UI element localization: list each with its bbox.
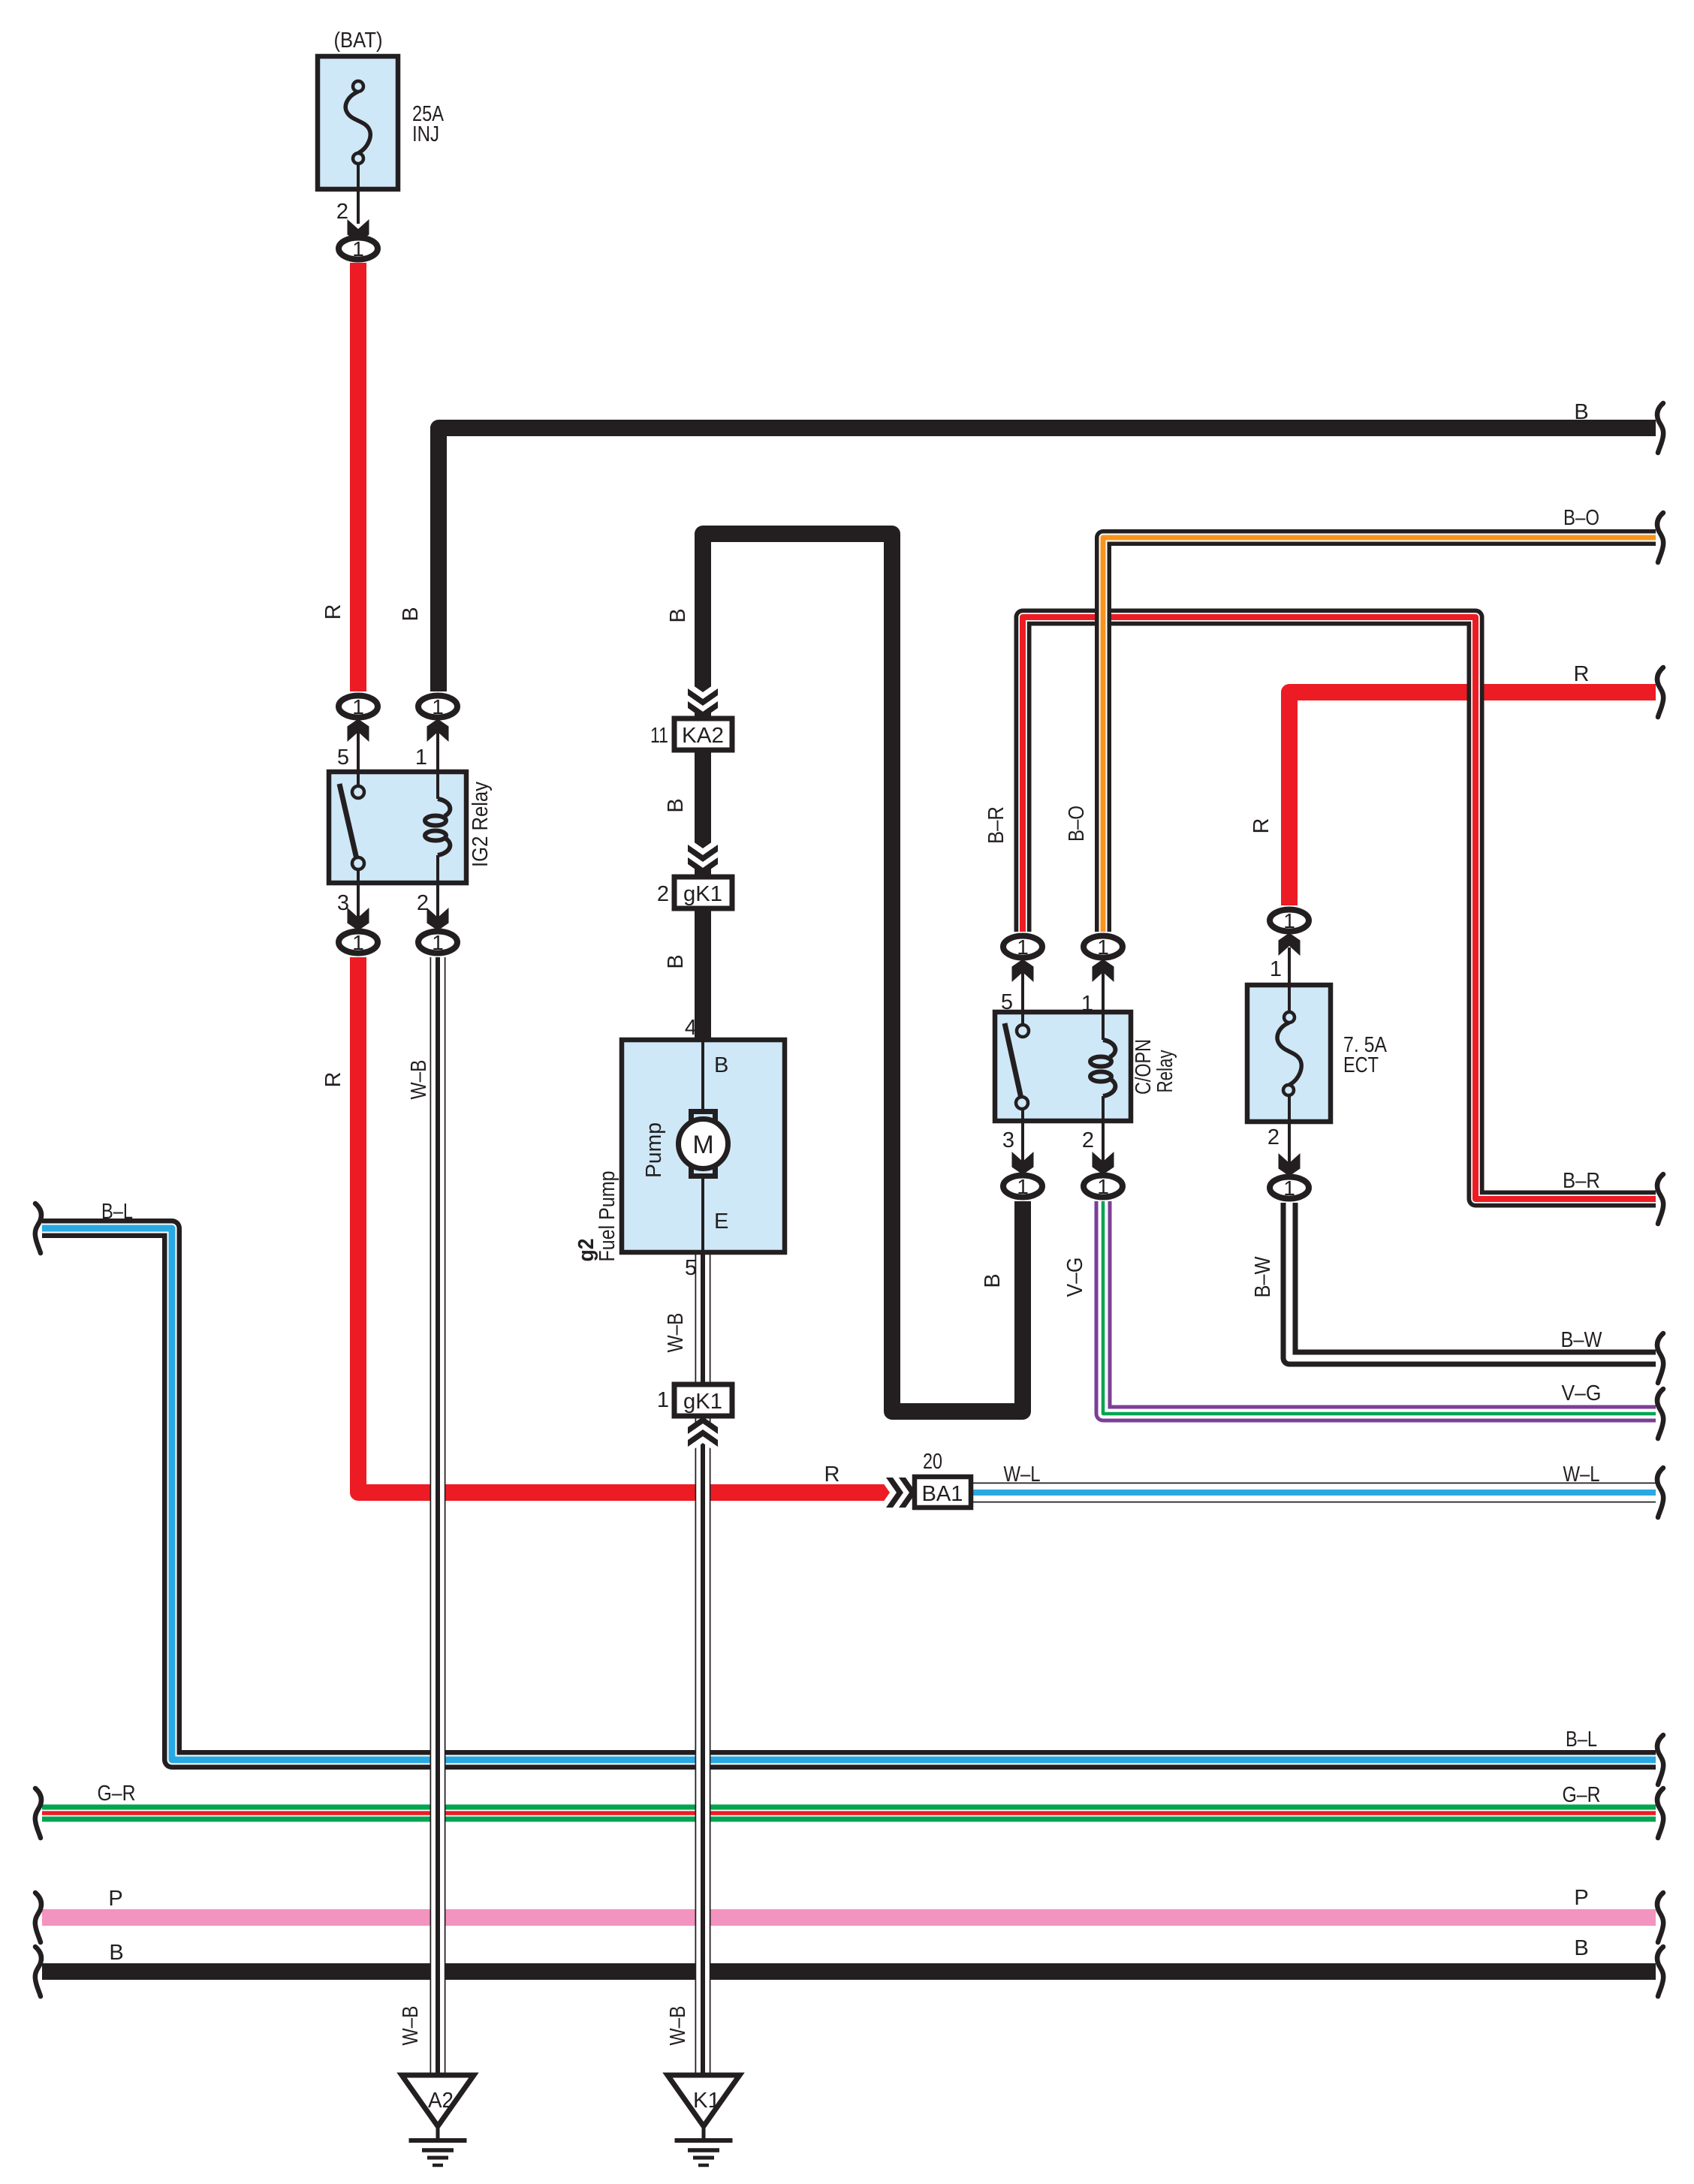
wire W-B (fuel pump pin 5 to gK1) xyxy=(695,1250,711,1387)
svg-text:B: B xyxy=(399,607,423,621)
svg-text:R: R xyxy=(1249,818,1274,834)
IG2 pin 2 arrow xyxy=(427,908,449,931)
svg-text:G–R: G–R xyxy=(1563,1783,1601,1807)
wire B-O (right edge to C/OPN relay pin 1) xyxy=(1103,538,1656,932)
svg-text:Fuel Pump: Fuel Pump xyxy=(595,1171,619,1262)
svg-text:11: 11 xyxy=(650,724,668,748)
brace P right xyxy=(1657,1893,1663,1942)
node 1 (above IG2 pin 1) xyxy=(418,695,457,718)
node 1 (below IG2 pin 2) xyxy=(418,931,457,954)
C/OPN pin 5 arrow xyxy=(1012,959,1034,983)
svg-text:M: M xyxy=(692,1131,713,1159)
brace G-R left xyxy=(35,1788,41,1838)
splice arrows into BA1 xyxy=(879,1478,897,1508)
splice arrows below gK1 xyxy=(688,1423,718,1441)
wire W-B (gK1 down to ground K1) xyxy=(695,1414,711,2075)
ECT pin 2 arrow xyxy=(1279,1153,1301,1176)
C/OPN relay coil xyxy=(1090,1040,1115,1096)
C/OPN pin 1 arrow xyxy=(1093,959,1114,983)
svg-text:B–O: B–O xyxy=(1065,806,1089,842)
svg-text:20: 20 xyxy=(923,1450,942,1474)
C/OPN relay pin 5 line xyxy=(1021,961,1024,1025)
svg-text:5: 5 xyxy=(1001,990,1013,1014)
svg-text:B: B xyxy=(664,798,688,812)
svg-text:2: 2 xyxy=(1082,1128,1094,1152)
svg-text:gK1: gK1 xyxy=(683,882,722,906)
svg-text:V–G: V–G xyxy=(1562,1381,1602,1405)
svg-text:B: B xyxy=(1574,400,1588,424)
fuse 7.5A ECT element xyxy=(1277,947,1301,1173)
brace B-O right xyxy=(1657,513,1663,562)
node 1 (below C/OPN pin 3) xyxy=(1003,1175,1042,1198)
ground A2 xyxy=(402,2075,474,2165)
wire V-G (C/OPN relay pin 2 down, right to edge) xyxy=(1103,1201,1656,1414)
svg-text:INJ: INJ xyxy=(412,122,439,146)
fuse 25A INJ element xyxy=(345,81,370,224)
svg-text:2: 2 xyxy=(657,882,669,906)
svg-text:1: 1 xyxy=(415,746,427,770)
IG2 relay pin 1 line xyxy=(436,721,439,799)
svg-text:R: R xyxy=(824,1463,840,1487)
svg-text:B–W: B–W xyxy=(1561,1328,1603,1352)
IG2 relay switch xyxy=(339,784,364,869)
brace B bottom right xyxy=(1657,1947,1663,1996)
splice arrows above gK1 xyxy=(688,838,718,855)
svg-text:1: 1 xyxy=(1270,957,1282,981)
svg-text:ECT: ECT xyxy=(1343,1053,1379,1077)
svg-text:B–O: B–O xyxy=(1563,506,1599,530)
svg-text:1: 1 xyxy=(1081,992,1093,1016)
C/OPN relay pin 1 line xyxy=(1102,961,1105,1040)
svg-text:W–B: W–B xyxy=(399,2006,423,2046)
node 1 (above ECT pin 1) xyxy=(1270,909,1309,932)
fuel pump internal wire B side xyxy=(701,1042,704,1112)
IG2 relay pin 5 line xyxy=(357,721,360,786)
brace W-L right xyxy=(1657,1468,1663,1517)
C/OPN pin 3 arrow xyxy=(1012,1152,1034,1175)
svg-text:K1: K1 xyxy=(693,2089,720,2113)
brace R right xyxy=(1657,667,1663,717)
svg-text:gK1: gK1 xyxy=(683,1390,722,1414)
ground K1 xyxy=(668,2075,740,2165)
fuse 7.5A ECT box xyxy=(1247,985,1331,1122)
svg-text:W–B: W–B xyxy=(666,2006,690,2046)
brace B bottom left xyxy=(35,1947,41,1996)
svg-text:5: 5 xyxy=(337,746,349,770)
wire B-L (left edge, down, right to edge) xyxy=(42,1228,1656,1760)
IG2 pin 5 arrow xyxy=(348,719,369,743)
svg-text:Relay: Relay xyxy=(1153,1050,1177,1092)
svg-text:R: R xyxy=(1574,662,1590,686)
wire G-R (full width) xyxy=(42,1805,1656,1822)
wire P (full width) xyxy=(42,1909,1656,1926)
brace P left xyxy=(35,1893,41,1942)
connector gK1 box (pin 1) xyxy=(674,1384,732,1416)
brace G-R right xyxy=(1657,1788,1663,1838)
svg-text:Pump: Pump xyxy=(642,1122,666,1178)
wire B (fuel pump pin 4 up through gK1/KA2, over and down to C/OPN relay pin 3) xyxy=(703,534,1023,1411)
svg-text:V–G: V–G xyxy=(1063,1258,1087,1297)
node 1 (below ECT pin 2) xyxy=(1270,1176,1309,1200)
node 1 (below IG2 pin 3) xyxy=(339,931,378,954)
wire R (IG2 relay pin 3 down to BA1 row) xyxy=(358,957,891,1493)
svg-text:B: B xyxy=(666,608,690,622)
ECT pin 1 arrow xyxy=(1279,933,1301,956)
svg-text:P: P xyxy=(108,1887,122,1911)
IG2 relay pin 2 line xyxy=(436,855,439,929)
svg-text:2: 2 xyxy=(336,200,348,224)
IG2 relay box xyxy=(329,772,466,883)
svg-text:B–L: B–L xyxy=(101,1200,133,1224)
connector gK1 box (pin 2) xyxy=(674,877,732,908)
svg-text:E: E xyxy=(714,1209,728,1234)
brace B-L right xyxy=(1657,1735,1663,1785)
wire B-R (C/OPN relay pin 5 up, right, down, to right edge) xyxy=(1023,617,1656,1199)
fuel pump motor M xyxy=(679,1112,728,1176)
fuse 25A INJ box xyxy=(318,56,398,189)
node 1 (below C/OPN pin 2) xyxy=(1084,1175,1123,1198)
wire B (bottom, full width) xyxy=(42,1963,1656,1980)
svg-text:BA1: BA1 xyxy=(922,1482,963,1506)
svg-text:B: B xyxy=(714,1053,728,1077)
svg-text:3: 3 xyxy=(337,891,349,915)
svg-text:B–R: B–R xyxy=(1563,1169,1600,1193)
C/OPN relay pin 2 line xyxy=(1102,1096,1105,1171)
C/OPN relay box xyxy=(995,1012,1131,1121)
node 1 (above C/OPN pin 1) xyxy=(1084,935,1123,959)
connector KA2 box xyxy=(674,718,732,750)
svg-text:B–W: B–W xyxy=(1251,1256,1275,1298)
svg-text:4: 4 xyxy=(685,1016,697,1040)
C/OPN relay pin 3 line xyxy=(1021,1109,1024,1171)
svg-text:R: R xyxy=(321,604,345,620)
brace B top right xyxy=(1657,403,1663,453)
IG2 relay coil xyxy=(425,799,450,855)
svg-text:W–L: W–L xyxy=(1563,1463,1600,1487)
svg-text:W–B: W–B xyxy=(407,1060,431,1100)
svg-text:B: B xyxy=(981,1273,1005,1288)
svg-text:1: 1 xyxy=(657,1388,669,1412)
svg-text:3: 3 xyxy=(1002,1128,1014,1152)
C/OPN pin 2 arrow xyxy=(1093,1152,1114,1175)
svg-text:2: 2 xyxy=(1267,1125,1280,1149)
connector BA1 box xyxy=(915,1477,971,1508)
svg-text:KA2: KA2 xyxy=(682,724,724,748)
IG2 relay pin 3 line xyxy=(357,869,360,929)
svg-text:A2: A2 xyxy=(428,2089,454,2113)
splice arrows above KA2 xyxy=(688,682,718,699)
svg-text:IG2 Relay: IG2 Relay xyxy=(469,782,493,867)
wire B-W (ECT fuse pin 2 down, right to edge) xyxy=(1289,1203,1656,1358)
svg-text:(BAT): (BAT) xyxy=(334,29,383,53)
wire R (right edge to ECT fuse pin 1) xyxy=(1289,692,1656,905)
svg-text:B–R: B–R xyxy=(984,806,1008,844)
wire R (fuse INJ to IG2 relay pin 5) xyxy=(350,263,366,691)
fuel pump box xyxy=(622,1040,785,1252)
svg-text:W–B: W–B xyxy=(664,1313,688,1353)
node 1 (above IG2 pin 5) xyxy=(339,695,378,718)
node 1 (below fuse INJ) xyxy=(339,237,378,261)
node 1 (above C/OPN pin 5) xyxy=(1003,935,1042,959)
svg-text:W–L: W–L xyxy=(1004,1463,1041,1487)
fuse INJ pin 2 arrow xyxy=(348,219,369,242)
fuel pump internal wire E side xyxy=(701,1176,704,1250)
svg-text:B: B xyxy=(109,1941,123,1965)
svg-text:B: B xyxy=(664,954,688,968)
wire W-B (IG2 relay pin 2 down to ground A2) xyxy=(430,957,446,2075)
brace B-L left xyxy=(35,1203,41,1253)
svg-text:R: R xyxy=(321,1072,345,1088)
svg-text:G–R: G–R xyxy=(98,1782,136,1806)
svg-text:C/OPN: C/OPN xyxy=(1132,1039,1156,1095)
svg-text:5: 5 xyxy=(685,1256,697,1280)
C/OPN relay switch xyxy=(1005,1023,1029,1109)
brace B-W right xyxy=(1657,1333,1663,1383)
IG2 pin 3 arrow xyxy=(348,908,369,931)
svg-text:B–L: B–L xyxy=(1566,1728,1597,1752)
svg-text:2: 2 xyxy=(417,891,429,915)
svg-text:B: B xyxy=(1574,1936,1588,1960)
brace V-G right xyxy=(1657,1389,1663,1438)
wire W-L (BA1 to right edge) xyxy=(971,1483,1656,1503)
svg-text:P: P xyxy=(1574,1886,1588,1910)
IG2 pin 1 arrow xyxy=(427,719,449,743)
brace B-R right xyxy=(1657,1174,1663,1224)
wire B (top, right edge to IG2 relay pin 1) xyxy=(439,428,1656,691)
